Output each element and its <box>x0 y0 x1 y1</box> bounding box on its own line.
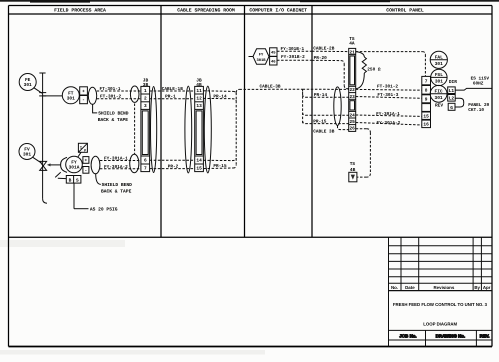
svg-text:P: P <box>84 149 86 154</box>
power terminal L1 <box>448 87 456 94</box>
svg-text:G: G <box>450 105 453 111</box>
controller FIC 301 <box>430 85 447 102</box>
signal arrow to valve actuator <box>47 163 61 166</box>
svg-text:PR-14: PR-14 <box>213 94 227 99</box>
junction box JB 3B <box>141 79 150 172</box>
svg-text:16: 16 <box>423 122 429 128</box>
shield drain leader FY <box>96 174 101 185</box>
TS 4A pin 25 <box>349 119 355 125</box>
label ES 115V 60HZ <box>471 77 490 87</box>
JB 4B pin 11 <box>196 89 202 94</box>
svg-text:PR-1: PR-1 <box>165 95 176 100</box>
svg-text:PR-15: PR-15 <box>213 164 227 169</box>
wire G to panel circuit <box>455 104 464 107</box>
wire PR-14 pair to cable bracket <box>203 91 236 101</box>
svg-text:I: I <box>80 145 82 150</box>
svg-text:FRESH FEED FLOW CONTROL TO UNI: FRESH FEED FLOW CONTROL TO UNIT NO. 3 <box>393 302 488 307</box>
svg-text:PR-20: PR-20 <box>314 56 328 61</box>
wire FY-301A-1 <box>100 156 141 161</box>
svg-text:15: 15 <box>196 167 202 172</box>
svg-text:4A: 4A <box>349 42 355 47</box>
svg-text:JOB No.: JOB No. <box>399 334 416 339</box>
impulse line to FT <box>43 95 63 97</box>
svg-text:REV.: REV. <box>480 334 490 339</box>
cable oval at JB 3B bottom entry <box>130 154 139 172</box>
note SHIELD BEND BACK & TAPE (FT) <box>98 111 129 124</box>
note SHIELD BEND BACK & TAPE (FY) <box>101 182 132 194</box>
JB 3B pin 1 <box>144 89 147 94</box>
cable shield oval at FY <box>91 156 100 174</box>
control valve body <box>40 161 47 170</box>
controller pin 16 <box>423 122 429 128</box>
svg-text:7: 7 <box>425 79 428 84</box>
wire FY-301A-1 to pin 15 <box>356 112 422 117</box>
leader FV to valve <box>33 157 42 163</box>
flow element FE 301 <box>19 74 36 91</box>
svg-text:FT-301-3: FT-301-3 <box>377 93 398 98</box>
TS 4A pin 24 <box>349 113 355 119</box>
svg-text:FT-301-2: FT-301-2 <box>100 95 121 100</box>
svg-text:FY-301B-2: FY-301B-2 <box>281 55 305 60</box>
wire FY-301A-2 <box>100 165 141 170</box>
cable label CABLE-1B <box>162 87 183 92</box>
switch FSL 301 <box>431 69 447 85</box>
svg-text:+: + <box>82 90 85 95</box>
svg-text:LOOP DIAGRAM: LOOP DIAGRAM <box>423 322 457 327</box>
JB 3B pin 3 <box>144 103 147 109</box>
TS 4A pin 22 <box>349 87 355 93</box>
svg-text:B: B <box>69 178 72 183</box>
zone header COMPUTER I/O CABINET <box>249 8 307 14</box>
wire PR-20 conductor to TS4A-22 <box>312 56 349 89</box>
wire PR-2 conductor 1 <box>150 159 195 161</box>
JB 4B pin 14 <box>196 159 202 164</box>
svg-text:FT-301-2: FT-301-2 <box>377 85 398 90</box>
svg-text:FY-301A-1: FY-301A-1 <box>376 112 400 117</box>
wire PR-1 conductor 1 <box>150 90 195 92</box>
svg-text:1: 1 <box>144 89 147 94</box>
svg-text:301: 301 <box>24 82 32 88</box>
wire FY-301A-2 to pin 16 <box>356 121 422 126</box>
zone header CABLE SPREADING ROOM <box>177 8 235 14</box>
svg-text:-: - <box>85 168 88 173</box>
svg-text:No.: No. <box>391 285 398 290</box>
JB 3B pin 7 <box>144 167 147 172</box>
svg-text:CABLE SPREADING ROOM: CABLE SPREADING ROOM <box>177 8 235 14</box>
transducer FY 301A <box>61 156 83 173</box>
orifice flange taps <box>39 93 46 96</box>
svg-text:SHIELD BEND: SHIELD BEND <box>102 182 133 188</box>
svg-text:301: 301 <box>67 96 75 102</box>
wire PR-15 pair to cable bracket <box>203 158 236 169</box>
air supply box B S <box>66 176 81 184</box>
svg-text:250 Ω: 250 Ω <box>367 68 381 73</box>
svg-text:REV: REV <box>435 104 443 109</box>
wire L2 to panel circuit <box>455 98 464 103</box>
svg-text:CABLE 3B: CABLE 3B <box>313 129 334 134</box>
JB 3B pin 2 <box>144 96 147 102</box>
cable oval at JB 3B top entry <box>130 86 139 102</box>
cable shield oval at FT <box>88 87 96 104</box>
svg-text:PANEL 20: PANEL 20 <box>468 103 489 108</box>
svg-text:301A: 301A <box>69 165 80 171</box>
controller pin 15 <box>423 114 429 119</box>
JB 4B pin 15 <box>196 167 202 172</box>
wire FT-301-3 <box>356 93 422 98</box>
svg-text:3: 3 <box>144 103 147 109</box>
svg-text:15: 15 <box>423 114 429 119</box>
drawing subtitle LOOP DIAGRAM <box>423 322 457 327</box>
wire PR-14 conductor 2 to TS4A-23 <box>303 95 349 98</box>
shield continuity wire <box>134 104 136 155</box>
svg-text:FY: FY <box>259 53 264 58</box>
svg-text:Apr: Apr <box>483 285 491 290</box>
svg-text:CABLE-3B: CABLE-3B <box>259 84 280 89</box>
svg-text:FT-301-1: FT-301-1 <box>99 87 120 92</box>
TS 4A pin 21 <box>349 49 355 55</box>
wire TS4A-21 to controller pin 7 <box>356 52 426 77</box>
process pipe <box>39 73 47 203</box>
svg-text:PR-2: PR-2 <box>168 165 179 170</box>
svg-text:FY-301A-1: FY-301A-1 <box>104 156 128 161</box>
svg-text:Date: Date <box>405 285 415 290</box>
JB 4B pin 13 <box>196 103 202 109</box>
TS 4A pin 26 <box>349 126 355 132</box>
svg-text:SHIELD BEND: SHIELD BEND <box>98 111 129 117</box>
TS 4A pin 23 <box>349 94 355 100</box>
cable oval JB 4B right <box>204 86 211 173</box>
air supply line AS 20 PSIG <box>74 183 118 213</box>
wire PR-15 conductor 1 to TS4A-24 <box>303 113 349 125</box>
svg-text:9: 9 <box>425 97 428 103</box>
cable shield drain CABLE 3B to TS4A-26 <box>313 126 348 135</box>
computer function FY 301B <box>249 49 270 64</box>
cable oval JB 4B left <box>185 86 192 173</box>
svg-text:FY-301A-2: FY-301A-2 <box>104 165 128 170</box>
revisions header row <box>391 285 491 290</box>
svg-text:CONTROL PANEL: CONTROL PANEL <box>386 8 424 14</box>
FY terminal + <box>83 157 89 164</box>
cable oval JB 3B right <box>151 87 157 173</box>
svg-text:Revisions: Revisions <box>434 285 455 290</box>
JB 4B pin 12 <box>196 96 202 102</box>
svg-text:DRAWING No.: DRAWING No. <box>436 334 466 339</box>
svg-text:13: 13 <box>196 103 202 109</box>
ground terminal G <box>448 103 455 111</box>
junction box JB 4B <box>195 79 204 172</box>
svg-text:AS 20 PSIG: AS 20 PSIG <box>90 207 118 213</box>
wire FT-301-1 <box>97 87 141 92</box>
svg-text:24: 24 <box>349 113 355 119</box>
controller terminal strip pins 7 8 9 15 16 <box>422 76 431 127</box>
svg-text:FAL: FAL <box>435 56 443 61</box>
svg-text:2: 2 <box>144 96 147 102</box>
svg-text:301: 301 <box>435 79 443 85</box>
wire TS4A-26 to panel ground TS 4B <box>356 129 371 177</box>
alarm FAL 301 <box>430 51 447 68</box>
svg-text:301: 301 <box>435 95 443 101</box>
drawing title <box>393 302 488 307</box>
svg-text:CKT.10: CKT.10 <box>468 108 484 113</box>
svg-text:L1: L1 <box>449 89 455 94</box>
FT terminal - <box>80 96 88 104</box>
svg-text:301: 301 <box>435 61 443 67</box>
svg-text:FIELD PROCESS AREA: FIELD PROCESS AREA <box>54 8 106 14</box>
svg-text:301B: 301B <box>256 58 266 63</box>
wire L1 to ES 115V supply <box>455 88 491 90</box>
svg-text:FSL: FSL <box>435 72 443 78</box>
cable bracket at control panel <box>302 89 304 124</box>
I/P converter square <box>78 143 88 157</box>
svg-text:+: + <box>85 159 88 164</box>
wire PR-1 conductor 2 <box>150 95 195 100</box>
wire FY-301B-1 <box>277 47 312 52</box>
wire FT-301-2 <box>97 95 141 100</box>
leader FE to pipe <box>34 88 42 94</box>
FY 301B pin 45 <box>270 48 277 57</box>
panel ground terminal TS 4B <box>349 161 357 182</box>
svg-text:14: 14 <box>196 159 202 164</box>
zone header CONTROL PANEL <box>386 8 424 14</box>
title block revisions table <box>389 237 493 346</box>
svg-text:S: S <box>76 177 79 183</box>
svg-text:7: 7 <box>144 167 147 172</box>
JB 3B pin 6 <box>144 158 147 164</box>
svg-text:26: 26 <box>349 126 355 132</box>
controller pin 8 <box>425 88 428 94</box>
title block job row <box>389 330 493 346</box>
wire PR-2 conductor 2 <box>150 165 195 170</box>
wire FT-301-2 <box>356 85 422 91</box>
transmitter FT 301 <box>62 87 79 104</box>
resistor 250 ohm <box>356 52 381 89</box>
svg-text:COMPUTER I/O CABINET: COMPUTER I/O CABINET <box>249 8 307 14</box>
wire PR-14 conductor 1 to TS4A-22 <box>303 89 349 98</box>
cable oval at TS 4A <box>334 87 341 126</box>
svg-text:FY-301B-1: FY-301B-1 <box>280 47 304 52</box>
svg-text:FIC: FIC <box>435 89 443 95</box>
svg-text:FY-301A-2: FY-301A-2 <box>377 121 401 126</box>
positioner leader squiggle <box>55 172 66 178</box>
svg-text:12: 12 <box>196 96 202 102</box>
svg-text:TS: TS <box>350 161 356 167</box>
wire PR-15 conductor 2 to TS4A-25 <box>303 121 349 124</box>
zone header FIELD PROCESS AREA <box>54 8 106 14</box>
svg-text:DIR: DIR <box>449 80 457 85</box>
shield drain leader FT <box>93 104 98 113</box>
svg-text:60HZ: 60HZ <box>473 81 484 86</box>
svg-text:22: 22 <box>349 87 355 93</box>
svg-text:L2: L2 <box>449 96 455 102</box>
FY terminal - <box>83 167 89 174</box>
svg-text:46: 46 <box>271 59 276 64</box>
svg-text:11: 11 <box>196 89 202 94</box>
FT terminal + <box>80 87 88 95</box>
svg-text:BACK & TAPE: BACK & TAPE <box>101 188 132 194</box>
svg-text:45: 45 <box>271 51 276 56</box>
label REV <box>435 104 443 109</box>
wire CABLE-2B conductor to TS4A-21 <box>312 47 349 52</box>
label DIR <box>449 80 457 85</box>
svg-text:6: 6 <box>144 158 147 164</box>
svg-text:-: - <box>82 98 85 103</box>
label PANEL 20 CKT.10 <box>468 103 489 113</box>
FY 301B pin 46 <box>270 57 277 66</box>
wire FY-301B-2 <box>277 55 312 60</box>
power terminal L2 <box>448 95 456 102</box>
terminal strip TS 4A <box>349 36 356 132</box>
svg-text:25: 25 <box>349 119 355 125</box>
svg-text:23: 23 <box>349 94 355 100</box>
svg-text:301: 301 <box>23 152 31 158</box>
svg-text:8: 8 <box>425 88 428 94</box>
controller pin 7 <box>425 79 428 84</box>
svg-text:By: By <box>474 285 480 290</box>
svg-text:CABLE-2B: CABLE-2B <box>313 47 334 52</box>
wire CABLE-3B <box>236 84 302 92</box>
cable bracket at JB 4B <box>235 93 237 167</box>
controller pin 9 <box>425 97 428 103</box>
svg-text:21: 21 <box>349 49 355 55</box>
svg-text:BACK & TAPE: BACK & TAPE <box>98 117 129 123</box>
valve circle FV 301 <box>19 144 35 160</box>
